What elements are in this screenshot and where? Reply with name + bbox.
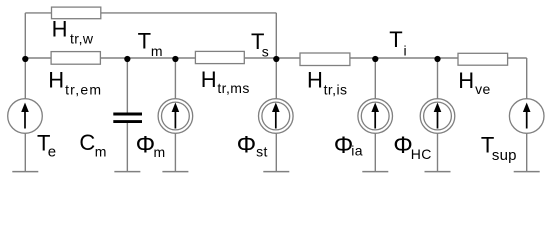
resistor H_tr,em	[51, 52, 100, 65]
svg-text:tr,em: tr,em	[65, 81, 102, 97]
ground (C_m branch)	[114, 171, 140, 173]
svg-text:T: T	[389, 27, 402, 52]
node T_s: junction at Phi_st branch	[273, 56, 279, 62]
wire: T_s / Phi_st branch vertical	[275, 13, 277, 172]
wire: main bus horizontal	[25, 57, 526, 59]
wire: top loop horizontal (theta_e to theta_s via H_tr,w)	[25, 12, 276, 14]
wire: C_m branch lower segment	[126, 122, 128, 172]
source Phi_m (heat flow source, double circle)	[158, 99, 193, 134]
ground (Phi_ia branch)	[362, 171, 388, 173]
ground (Phi_st branch)	[263, 171, 289, 173]
svg-text:H: H	[52, 17, 68, 42]
svg-text:Φ: Φ	[237, 131, 257, 158]
svg-text:ve: ve	[475, 81, 491, 97]
svg-text:m: m	[151, 43, 163, 59]
wire: C_m branch upper segment	[126, 58, 128, 114]
wire: left vertical (T_e branch)	[24, 13, 26, 172]
svg-text:HC: HC	[411, 146, 432, 162]
node T_i: junction at Phi_ia branch	[372, 56, 378, 62]
svg-text:Φ: Φ	[136, 132, 156, 159]
svg-text:T: T	[138, 28, 151, 53]
svg-text:m: m	[154, 144, 166, 160]
svg-text:e: e	[48, 144, 56, 161]
svg-text:H: H	[48, 67, 64, 92]
svg-text:i: i	[404, 43, 407, 59]
ground (Phi_m branch)	[162, 171, 188, 173]
svg-text:H: H	[307, 68, 323, 93]
wire: Phi_m branch vertical	[174, 58, 176, 172]
resistor H_tr,w	[52, 7, 101, 19]
ground (T_sup branch)	[514, 171, 540, 173]
source Phi_HC (heat flow source, double circle)	[420, 99, 455, 134]
svg-text:tr,w: tr,w	[70, 31, 94, 47]
svg-text:ia: ia	[351, 143, 363, 159]
source T_sup (temperature source)	[509, 99, 544, 134]
svg-text:sup: sup	[492, 147, 517, 164]
source T_e (temperature source)	[8, 99, 43, 134]
ground (Phi_HC branch)	[425, 171, 451, 173]
svg-text:s: s	[262, 43, 269, 59]
svg-text:H: H	[201, 67, 217, 92]
svg-text:tr,ms: tr,ms	[217, 80, 249, 96]
svg-text:H: H	[458, 68, 474, 93]
wire: T_sup branch vertical (right edge)	[526, 58, 528, 172]
svg-text:tr,is: tr,is	[324, 81, 348, 97]
node: junction at Phi_m branch	[172, 56, 178, 62]
wire: Phi_HC branch vertical	[437, 58, 439, 172]
node: junction at Phi_HC branch	[434, 56, 440, 62]
wire: Phi_ia branch vertical	[374, 58, 376, 172]
node: junction at T_e branch	[22, 56, 28, 62]
svg-text:C: C	[79, 130, 95, 155]
ground (T_e branch)	[12, 171, 38, 173]
svg-text:st: st	[256, 143, 268, 159]
resistor H_ve	[458, 53, 508, 65]
capacitor C_m	[113, 114, 142, 122]
source Phi_ia (heat flow source, double circle)	[358, 99, 393, 134]
node: junction at C_m branch	[124, 56, 130, 62]
resistor H_tr,ms	[195, 51, 244, 63]
source Phi_st (heat flow source, double circle)	[259, 99, 294, 134]
svg-text:m: m	[95, 143, 107, 159]
resistor H_tr,is	[300, 53, 350, 66]
